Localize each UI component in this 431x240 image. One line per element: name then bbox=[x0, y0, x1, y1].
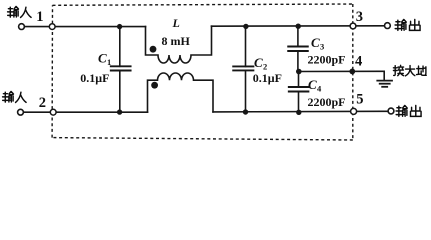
label: jie-da-di (connect to earth) bbox=[393, 65, 426, 76]
inductor L bottom winding bbox=[148, 73, 214, 112]
wire: top rail node1 to inductor top-left bbox=[55, 26, 145, 28]
input terminal 2 circle bbox=[18, 109, 24, 115]
svg-text:L: L bbox=[172, 16, 180, 30]
junction: C2 to bottom rail bbox=[243, 109, 248, 114]
svg-text:2200pF: 2200pF bbox=[308, 95, 346, 109]
label: shu-ru (input) top bbox=[8, 6, 32, 17]
wire: input terminal 2 to node 2 bbox=[24, 111, 50, 113]
node 3 open circle bbox=[350, 23, 356, 29]
junction: C1 to top rail bbox=[117, 24, 122, 29]
label: shu-chu (output) top bbox=[395, 19, 420, 30]
wire: bottom rail from inductor to node 5 and output bbox=[213, 110, 388, 113]
wire: bottom rail node 2 to inductor bottom-left bbox=[57, 111, 148, 113]
capacitor C3 bbox=[288, 26, 308, 71]
node 4 junction dot on enclosure boundary bbox=[349, 69, 355, 75]
label: shu-chu (output) bottom bbox=[396, 105, 421, 116]
svg-text:C: C bbox=[311, 35, 320, 50]
svg-text:0.1μF: 0.1μF bbox=[80, 71, 109, 85]
node 2 open circle bbox=[50, 109, 56, 115]
junction node between C3 and C4 bbox=[296, 69, 302, 75]
svg-text:3: 3 bbox=[320, 42, 324, 52]
svg-text:1: 1 bbox=[107, 57, 111, 67]
capacitor C1 bbox=[111, 27, 131, 113]
svg-text:1: 1 bbox=[36, 9, 43, 25]
junction: C4 to bottom rail bbox=[296, 110, 301, 115]
polarity dot bottom winding bbox=[151, 82, 158, 89]
svg-text:4: 4 bbox=[355, 54, 362, 70]
node 1 open circle bbox=[49, 24, 55, 30]
svg-text:0.1μF: 0.1μF bbox=[253, 71, 282, 85]
wire: top rail from inductor to node 3 and output bbox=[212, 25, 385, 27]
junction: C1 to bottom rail bbox=[117, 109, 122, 114]
input terminal 1 circle bbox=[19, 24, 25, 30]
label: shu-ru (input) bottom bbox=[3, 91, 27, 102]
svg-text:2: 2 bbox=[263, 61, 267, 71]
output terminal 3 circle bbox=[385, 23, 391, 29]
svg-text:2: 2 bbox=[39, 95, 46, 111]
svg-text:8 mH: 8 mH bbox=[162, 34, 191, 48]
inductor L top winding bbox=[146, 26, 212, 63]
wire: earth branch from C3/C4 node to earth bbox=[299, 70, 384, 72]
node 5 open circle bbox=[351, 108, 357, 114]
earth ground symbol bbox=[377, 71, 392, 87]
svg-text:5: 5 bbox=[356, 91, 363, 107]
junction: C2 to top rail bbox=[243, 24, 248, 29]
svg-text:C: C bbox=[308, 77, 317, 92]
junction: C3 to top rail bbox=[296, 24, 301, 29]
polarity dot top winding bbox=[150, 46, 157, 53]
capacitor C2 bbox=[233, 26, 253, 112]
svg-text:C: C bbox=[98, 51, 107, 66]
output terminal 5 circle bbox=[388, 108, 394, 114]
svg-text:C: C bbox=[254, 55, 263, 70]
wire: input terminal 1 to node 1 bbox=[25, 26, 49, 28]
svg-text:3: 3 bbox=[356, 9, 363, 25]
capacitor C4 bbox=[289, 72, 309, 113]
shield enclosure dashed box bbox=[52, 4, 353, 140]
svg-text:2200pF: 2200pF bbox=[308, 52, 346, 66]
